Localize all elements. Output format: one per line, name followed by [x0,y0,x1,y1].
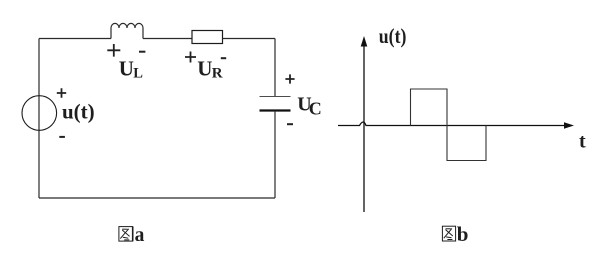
svg-text:u(t): u(t) [62,100,95,124]
svg-text:t: t [579,131,586,153]
svg-text:b: b [457,222,469,246]
svg-text:a: a [135,225,145,246]
svg-text:U: U [119,57,134,81]
svg-text:C: C [309,99,322,119]
svg-text:R: R [212,66,223,82]
svg-text:L: L [133,65,143,81]
svg-text:U: U [197,57,212,81]
svg-text:u(t): u(t) [379,24,407,48]
